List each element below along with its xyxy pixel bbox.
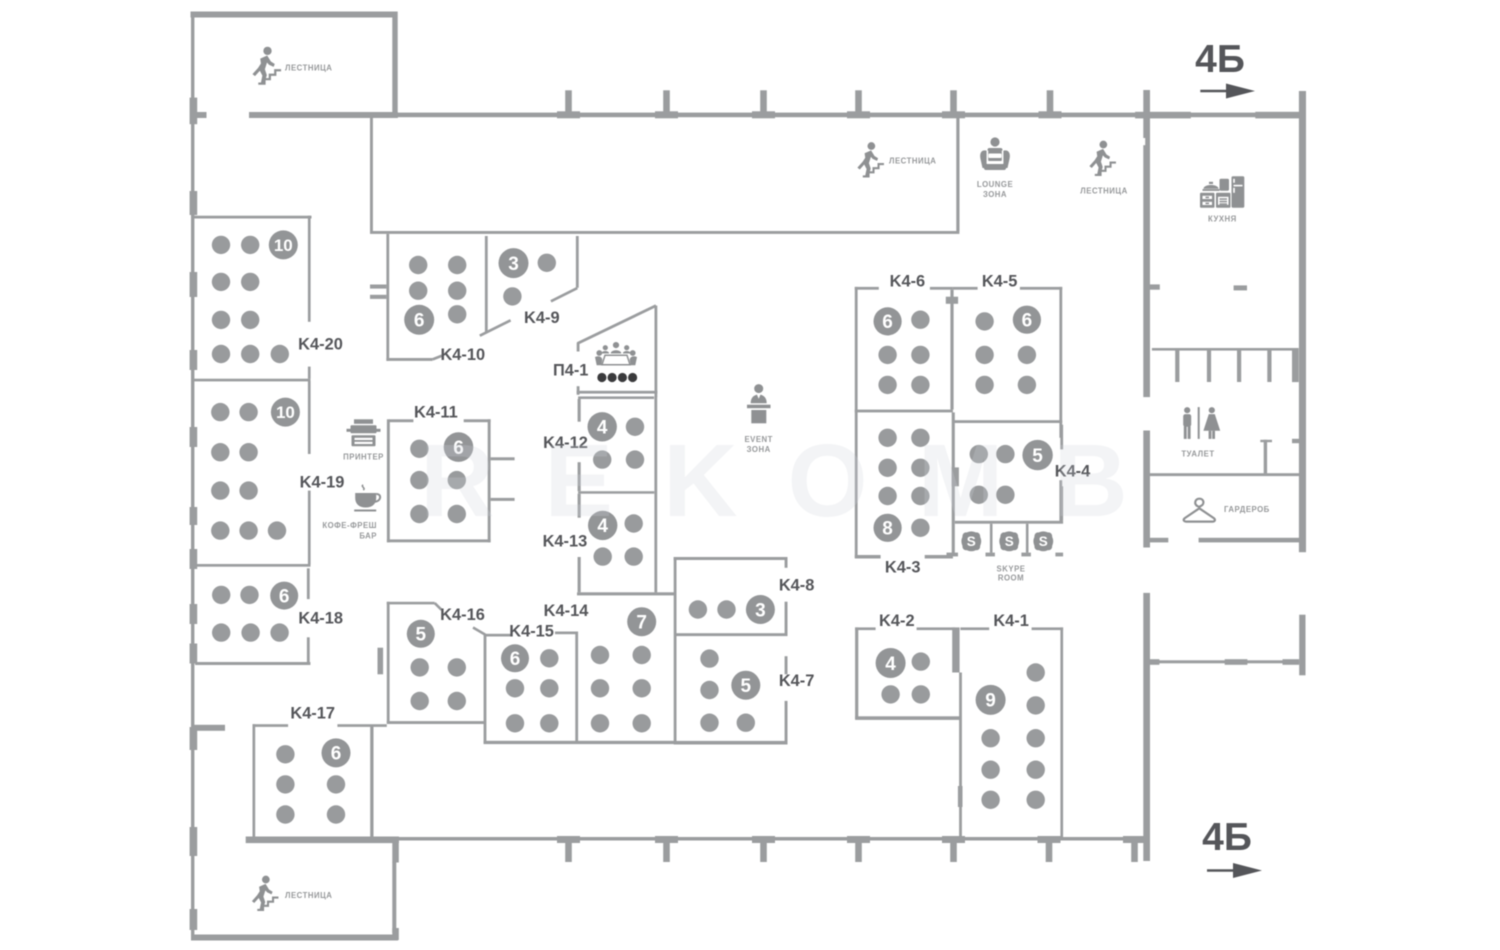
- svg-text:K4-8: K4-8: [779, 577, 815, 595]
- room K4-18 walls: [195, 568, 310, 665]
- skype booths walls: [947, 524, 1064, 557]
- label K4-11: [414, 404, 458, 422]
- svg-text:ROOM: ROOM: [998, 573, 1024, 582]
- capacity badge K4-16: 5: [407, 620, 435, 648]
- stairs room bottom-left: right wall: [392, 837, 399, 941]
- skype icon 3: [1033, 531, 1053, 551]
- room K4-14 walls: [577, 557, 677, 745]
- stairs icon top-left: [252, 47, 281, 84]
- capacity badge K4-9: 3: [499, 248, 529, 278]
- desks K4-14: [591, 646, 651, 733]
- svg-text:3: 3: [508, 254, 519, 275]
- toilet bottom wall: [1146, 473, 1302, 476]
- capacity badge K4-7: 5: [731, 671, 760, 700]
- svg-text:K4-10: K4-10: [440, 346, 485, 364]
- svg-text:K4-17: K4-17: [290, 705, 335, 723]
- top wall thick segment near kitchen: [1135, 112, 1306, 119]
- svg-text:SKYPE: SKYPE: [997, 565, 1026, 574]
- printer icon: [347, 419, 381, 446]
- room K4-20 walls: [193, 216, 312, 379]
- room K4-17 walls: [253, 724, 387, 838]
- svg-text:6: 6: [331, 744, 342, 765]
- svg-text:LOUNGE: LOUNGE: [977, 180, 1013, 189]
- arrow 4B top: [1200, 84, 1255, 99]
- skype icon 1: [961, 531, 981, 551]
- label K4-9: [524, 309, 560, 327]
- capacity badge K4-11: 6: [444, 432, 474, 462]
- capacity badge K4-18: 6: [270, 582, 298, 610]
- desks K4-8: [689, 600, 736, 618]
- capacity badge K4-4: 5: [1022, 440, 1052, 470]
- desks K4-2: [881, 652, 930, 703]
- svg-text:REKOMB: REKOMB: [420, 423, 1178, 538]
- event podium icon: [747, 384, 771, 423]
- svg-text:10: 10: [276, 403, 295, 422]
- label K4-7: [779, 672, 815, 690]
- desks K4-6: [878, 311, 929, 395]
- bottom wall pillars: [557, 836, 1146, 862]
- desks K4-12: [593, 418, 644, 469]
- svg-text:6: 6: [510, 649, 521, 670]
- room K4-3 walls: [855, 412, 955, 558]
- svg-text:K4-16: K4-16: [440, 606, 485, 624]
- capacity badge K4-20: 10: [269, 230, 298, 259]
- svg-text:K4-1: K4-1: [993, 612, 1029, 630]
- corridor bottom-right wall end: [1299, 615, 1305, 676]
- door marker K4-6: [946, 297, 958, 304]
- watermark REKOMB: [420, 423, 1178, 538]
- svg-text:K4-9: K4-9: [524, 309, 560, 327]
- svg-text:ТУАЛЕТ: ТУАЛЕТ: [1181, 450, 1214, 459]
- room K4-5 walls: [953, 287, 1062, 523]
- desks K4-7: [700, 649, 755, 732]
- desks K4-15: [506, 649, 559, 732]
- svg-text:4Б: 4Б: [1195, 38, 1245, 81]
- room K4-15 walls: [484, 632, 677, 745]
- room K4-11 walls: [387, 419, 491, 542]
- svg-text:ЛЕСТНИЦА: ЛЕСТНИЦА: [1080, 186, 1127, 195]
- room K4-8 walls: [674, 557, 788, 636]
- svg-text:6: 6: [882, 312, 893, 333]
- svg-text:7: 7: [636, 613, 647, 634]
- room K4-4 walls: [955, 425, 1063, 524]
- left wall stub near K4-17: [192, 725, 225, 731]
- svg-text:K4-18: K4-18: [298, 610, 343, 628]
- kitchen left wall lower segment: [1143, 431, 1150, 548]
- svg-text:4: 4: [885, 654, 896, 675]
- svg-text:ЛЕСТНИЦА: ЛЕСТНИЦА: [285, 891, 332, 900]
- svg-text:ЗОНА: ЗОНА: [983, 190, 1007, 199]
- label K4-13: [543, 533, 588, 551]
- svg-text:K4-19: K4-19: [300, 474, 345, 492]
- svg-text:K4-14: K4-14: [544, 602, 590, 620]
- svg-text:K4-7: K4-7: [779, 672, 815, 690]
- top-middle room right wall: [956, 118, 959, 232]
- room K4-16 walls: [387, 602, 486, 724]
- right outer wall upper: [1299, 91, 1306, 552]
- capacity badge K4-15: 6: [501, 644, 529, 672]
- capacity badge K4-13: 4: [588, 511, 617, 540]
- desks K4-5: [975, 312, 1036, 394]
- svg-text:ПРИНТЕР: ПРИНТЕР: [343, 452, 384, 461]
- stairs room bottom-left: bottom wall: [191, 935, 398, 941]
- room K4-7 walls: [675, 656, 787, 744]
- skype icon 2: [999, 531, 1019, 551]
- arrow 4B bottom: [1207, 863, 1262, 878]
- svg-text:БАР: БАР: [359, 532, 377, 541]
- svg-text:K4-15: K4-15: [509, 623, 554, 641]
- room K4-9 walls: [480, 236, 579, 336]
- desks K4-20: [212, 236, 289, 363]
- capacity badge K4-2: 4: [876, 648, 906, 678]
- label K4-8: [779, 577, 815, 595]
- svg-text:K4-20: K4-20: [298, 336, 343, 354]
- coffee icon: [354, 485, 380, 512]
- label K4-2: [879, 612, 915, 630]
- label skype room: [997, 565, 1026, 583]
- desks K4-3: [878, 429, 929, 537]
- svg-text:ЛЕСТНИЦА: ЛЕСТНИЦА: [285, 64, 332, 73]
- svg-text:5: 5: [741, 676, 752, 697]
- kitchen door notch: [1142, 138, 1146, 145]
- stairs icon bottom-left: [252, 876, 279, 910]
- K4-11 right stubs: [491, 457, 515, 501]
- svg-text:10: 10: [274, 236, 293, 255]
- desks K4-4: [970, 445, 1015, 504]
- capacity badge K4-12: 4: [588, 412, 617, 441]
- label lestnitsa top-middle: [889, 157, 936, 166]
- svg-text:K4-5: K4-5: [982, 272, 1018, 290]
- label K4-17: [290, 705, 335, 723]
- main bottom wall: [398, 837, 1147, 841]
- desks K4-1: [981, 663, 1045, 809]
- svg-text:КУХНЯ: КУХНЯ: [1208, 215, 1237, 224]
- label K4-18: [298, 610, 343, 628]
- svg-text:5: 5: [416, 625, 427, 646]
- label kuhnya: [1208, 215, 1237, 224]
- door jamb K4-2/K4-1: [952, 627, 959, 672]
- desks K4-19: [211, 403, 286, 540]
- toilet divider line: [1198, 407, 1200, 439]
- svg-text:K4-3: K4-3: [885, 558, 921, 576]
- label K4-20: [298, 336, 343, 354]
- svg-text:6: 6: [279, 586, 290, 607]
- label K4-14: [544, 602, 590, 620]
- toilet stalls comb: [1152, 348, 1299, 382]
- room K4-2 walls: [855, 627, 960, 719]
- door leaf near K4-16: [378, 648, 384, 675]
- label K4-16: [440, 606, 485, 624]
- label garderob: [1224, 505, 1270, 514]
- capacity badge K4-6: 6: [874, 307, 902, 335]
- main top wall: [249, 113, 1306, 118]
- svg-text:П4-1: П4-1: [553, 362, 588, 380]
- label event zona: [744, 435, 773, 454]
- toilet man icon: [1183, 407, 1191, 439]
- capacity badge K4-5: 6: [1013, 306, 1041, 334]
- kitchen left wall: [1143, 90, 1150, 397]
- kitchen counter stubs: [1150, 284, 1247, 290]
- left wall door jambs: [190, 98, 198, 930]
- svg-text:K4-2: K4-2: [879, 612, 915, 630]
- label K4-4: [1055, 463, 1091, 481]
- capacity badge K4-8: 3: [746, 595, 775, 624]
- label 4B bottom: [1202, 816, 1252, 859]
- stairs room top-left: right wall: [392, 12, 397, 119]
- right lower vertical wall: [1143, 593, 1150, 861]
- room P4-1 walls: [577, 306, 658, 397]
- room K4-1 walls: [959, 627, 1063, 838]
- capacity badge K4-3: 8: [874, 514, 902, 542]
- top-middle room left wall: [370, 118, 373, 233]
- outer left wall: [191, 12, 194, 941]
- svg-text:K4-6: K4-6: [890, 272, 926, 290]
- svg-text:4Б: 4Б: [1202, 816, 1252, 859]
- desks K4-18: [212, 586, 289, 642]
- label lounge zona: [977, 180, 1013, 199]
- stairs icon top-right: [1089, 141, 1116, 175]
- capacity badge K4-10: 6: [404, 305, 434, 335]
- desks K4-11: [410, 440, 466, 524]
- wardrobe bottom wall: [1150, 538, 1300, 543]
- label lestnitsa top-left: [285, 64, 332, 73]
- label P4-1: [553, 362, 588, 380]
- svg-text:ЛЕСТНИЦА: ЛЕСТНИЦА: [889, 157, 936, 166]
- kitchen icon: [1200, 176, 1244, 208]
- room K4-13 walls: [578, 494, 581, 593]
- stairs room top-left: bottom wall: [249, 112, 398, 118]
- label K4-6: [890, 272, 926, 290]
- desks K4-17: [276, 745, 345, 824]
- room K4-19 walls: [193, 379, 311, 567]
- label lestnitsa top-right: [1080, 186, 1127, 195]
- label coffee fresh bar: [322, 521, 377, 541]
- label K4-15: [509, 623, 554, 641]
- desks K4-16: [411, 658, 466, 710]
- meeting dots P4-1: [597, 373, 637, 382]
- room K4-12 walls: [578, 396, 658, 592]
- desks K4-9: [503, 254, 556, 306]
- door marker double bars K4-10: [370, 285, 386, 299]
- capacity badge K4-14: 7: [627, 607, 656, 636]
- stairs icon top-middle: [857, 142, 884, 176]
- capacity badge K4-17: 6: [322, 738, 351, 767]
- toilet stall partition: [1260, 439, 1306, 474]
- label 4B top: [1195, 38, 1245, 81]
- meeting table icon P4-1: [595, 342, 637, 365]
- lounge icon: [980, 137, 1010, 170]
- svg-text:6: 6: [1022, 311, 1033, 332]
- desks K4-10: [409, 256, 466, 324]
- label K4-12: [543, 434, 588, 452]
- label K4-10: [440, 346, 485, 364]
- svg-text:6: 6: [414, 311, 425, 332]
- label K4-19: [300, 474, 345, 492]
- svg-text:3: 3: [755, 600, 766, 621]
- capacity badge K4-19: 10: [271, 398, 300, 427]
- top wall pillars: [557, 90, 1062, 118]
- capacity badge K4-1: 9: [976, 685, 1006, 715]
- label lestnitsa bottom-left: [285, 891, 332, 900]
- stairs room top-left: bottom stub: [191, 112, 207, 118]
- label K4-1: [993, 612, 1029, 630]
- desks K4-13: [594, 514, 643, 566]
- door marker K4-3/K4-4: [952, 467, 959, 486]
- corridor bottom-right wall: [1149, 659, 1299, 665]
- room K4-10 walls: [386, 234, 441, 361]
- label tualet: [1181, 450, 1214, 459]
- stairs room top-left: top wall: [191, 12, 398, 18]
- svg-text:КОФЕ-ФРЕШ: КОФЕ-ФРЕШ: [322, 521, 377, 530]
- svg-text:9: 9: [985, 691, 996, 712]
- room K4-6 walls: [855, 287, 954, 558]
- svg-text:ГАРДЕРОБ: ГАРДЕРОБ: [1224, 505, 1270, 514]
- label K4-3: [885, 558, 921, 576]
- door marker K4-1: [958, 786, 963, 807]
- bottom wall thick segment (stairs room top): [246, 837, 399, 844]
- label printer: [343, 452, 384, 461]
- label K4-5: [982, 272, 1018, 290]
- hanger icon: [1184, 499, 1215, 522]
- svg-text:K4-11: K4-11: [414, 404, 458, 422]
- top-middle room bottom wall: [370, 231, 959, 234]
- toilet woman icon: [1203, 407, 1220, 439]
